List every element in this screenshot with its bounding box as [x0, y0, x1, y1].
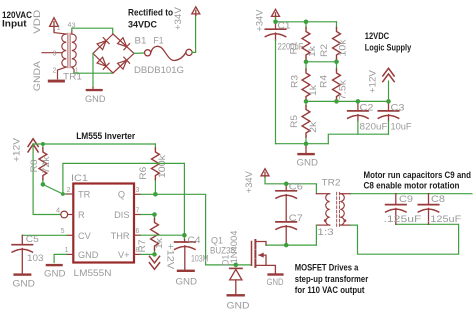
capacitor C2 [357, 101, 359, 110]
fuse F1 [145, 46, 193, 60]
junction dots top-right [273, 20, 391, 147]
svg-text:B1: B1 [135, 35, 147, 46]
svg-text:C2: C2 [360, 102, 374, 113]
svg-text:C9: C9 [399, 194, 413, 205]
wire TR1 pin4 to bridge top [72, 28, 113, 33]
svg-text:DIS: DIS [114, 210, 129, 220]
svg-text:+12V: +12V [12, 137, 23, 162]
capacitor C3 [388, 101, 390, 110]
op-amp IC1 LM555N body [73, 184, 134, 263]
svg-text:R8: R8 [29, 160, 40, 173]
svg-text:R6: R6 [138, 167, 149, 180]
wire +12V to rail [388, 81, 390, 101]
svg-text:TR: TR [78, 190, 91, 200]
pin 4 inversion bubble [61, 211, 68, 218]
svg-text:103M: 103M [191, 253, 209, 264]
svg-text:3: 3 [53, 50, 57, 57]
wire row2 [306, 61, 337, 63]
wire drain rail [266, 244, 316, 246]
resistor R5 [305, 101, 307, 143]
svg-text:MOSFET Drives a: MOSFET Drives a [295, 263, 359, 274]
svg-text:LM555N: LM555N [74, 268, 112, 279]
supply +34V mid [272, 9, 280, 16]
svg-text:C8 enable motor rotation: C8 enable motor rotation [364, 180, 460, 191]
svg-text:820uF: 820uF [360, 121, 388, 132]
svg-text:C3: C3 [391, 102, 405, 113]
svg-text:12VDC: 12VDC [365, 31, 389, 42]
svg-text:THR: THR [111, 231, 130, 241]
svg-text:R1: R1 [288, 42, 299, 55]
svg-text:2: 2 [53, 67, 57, 74]
svg-text:1: 1 [57, 25, 61, 32]
svg-text:1k: 1k [154, 238, 165, 249]
svg-text:R3: R3 [289, 75, 300, 88]
svg-text:100k: 100k [157, 155, 168, 178]
svg-text:GND: GND [85, 94, 106, 105]
capacitor C9 [395, 194, 397, 205]
svg-text:5: 5 [61, 228, 65, 235]
capacitor C7 [276, 222, 296, 229]
svg-text:R4: R4 [318, 75, 329, 88]
svg-text:+12V: +12V [165, 243, 176, 270]
ground GNDA [48, 80, 65, 83]
capacitor C5 [21, 235, 23, 244]
svg-text:.125uF: .125uF [427, 214, 461, 225]
ground GND at diode [227, 294, 245, 296]
wire row3 12V rail [306, 100, 389, 102]
svg-text:1k: 1k [308, 85, 319, 96]
svg-text:DBDB101G: DBDB101G [134, 65, 184, 76]
wire TR1 pin1 to bridge bottom [74, 72, 113, 73]
svg-text:+34V: +34V [255, 9, 266, 32]
ground GND under C5 [13, 273, 31, 275]
svg-text:C6: C6 [289, 181, 303, 192]
svg-text:Rectified to: Rectified to [128, 8, 173, 19]
supply +34V left [192, 7, 200, 14]
ground GND under C4 [177, 270, 195, 272]
resistor R8 [42, 144, 44, 184]
SECTION: lm555 [12, 131, 252, 289]
svg-text:GND: GND [227, 301, 250, 312]
svg-text:R5: R5 [289, 115, 300, 128]
svg-text:2k: 2k [308, 122, 319, 133]
wire VDD to TR1 pin [54, 31, 66, 34]
svg-text:C1: C1 [278, 21, 291, 32]
svg-text:C7: C7 [289, 213, 303, 224]
svg-text:F1: F1 [154, 35, 164, 46]
supply +34V at TR2 [261, 169, 269, 176]
svg-text:1: 1 [65, 247, 69, 254]
svg-text:C8: C8 [431, 194, 445, 205]
svg-text:4: 4 [56, 207, 60, 214]
svg-text:72k: 72k [41, 156, 52, 173]
svg-text:1:3: 1:3 [317, 227, 334, 238]
resistor R2 [336, 22, 338, 62]
svg-text:C5: C5 [26, 234, 39, 245]
svg-text:Logic Supply: Logic Supply [365, 43, 412, 54]
svg-text:GND: GND [44, 269, 66, 280]
wire CV to C5 [22, 234, 67, 236]
svg-text:+12V: +12V [368, 69, 379, 93]
svg-text:C4: C4 [188, 235, 201, 246]
wire GND pin1 [54, 254, 67, 262]
svg-text:GND: GND [78, 250, 99, 260]
wire TR2 primary bottom to drain rail [315, 225, 317, 245]
svg-text:step-up transformer: step-up transformer [295, 274, 369, 285]
resistor R1 [305, 22, 307, 62]
wire THR [140, 234, 184, 236]
capacitor C8 [428, 194, 430, 205]
svg-text:34VDC: 34VDC [128, 20, 157, 31]
svg-text:GND: GND [176, 277, 198, 288]
wire TR2 secondary top rail [351, 193, 472, 195]
wire C1 down to ground rail [275, 40, 277, 144]
svg-text:103: 103 [27, 253, 44, 264]
svg-text:TR2: TR2 [322, 177, 341, 188]
supply +12V top-right [383, 68, 394, 81]
svg-text:R7: R7 [137, 240, 148, 253]
supply +12V down at V+ [149, 256, 159, 269]
SECTION: top-right supply [255, 9, 412, 169]
svg-text:2: 2 [67, 187, 71, 194]
wire TR node to R8 diagonal and THR link [43, 163, 185, 235]
svg-text:GNDA: GNDA [32, 60, 43, 91]
svg-text:7: 7 [136, 207, 140, 214]
wire bridge right vertex to fuse [134, 52, 145, 54]
SECTION: mosfet-tr2 [210, 169, 472, 312]
ground GND at source [267, 273, 283, 275]
svg-text:1N4004: 1N4004 [229, 231, 240, 264]
svg-text:.125uF: .125uF [384, 214, 422, 225]
wire DIS [140, 214, 154, 216]
ground GND under R5 [305, 144, 307, 153]
svg-text:Input: Input [2, 19, 27, 30]
junction dots lm555 [41, 142, 187, 257]
ground GND under bridge [92, 87, 94, 89]
capacitor C6 [285, 184, 287, 191]
svg-text:Q: Q [118, 190, 125, 200]
svg-text:10k: 10k [338, 39, 349, 56]
SECTION: top-left power input [2, 7, 200, 105]
svg-text:IC1: IC1 [71, 173, 88, 184]
svg-text:R2: R2 [319, 44, 330, 57]
capacitor C1 [275, 22, 277, 29]
wire +12V rail to R6 [33, 143, 155, 145]
svg-text:LM555 Inverter: LM555 Inverter [76, 131, 135, 142]
svg-text:+34V: +34V [173, 7, 184, 31]
supply +12V lm555 [28, 139, 38, 152]
wire top rail [276, 21, 337, 23]
wire fuse to +34V [192, 15, 196, 52]
junction dots mosfet area [234, 182, 289, 268]
wire +34V to rail [275, 18, 277, 22]
wire to C4 [183, 235, 185, 239]
svg-text:3: 3 [136, 187, 140, 194]
svg-text:6: 6 [136, 228, 140, 235]
svg-text:GND: GND [267, 277, 284, 288]
bridge rectifier B1 [93, 34, 134, 73]
wire C2 C3 bottoms [358, 121, 389, 134]
svg-text:GND: GND [297, 158, 319, 169]
wire ground rail [276, 143, 329, 145]
capacitor C4 [184, 240, 186, 242]
resistor R4 [336, 62, 338, 102]
wire bridge left vertex to ground [92, 53, 94, 87]
svg-text:1k: 1k [307, 46, 318, 57]
pin stubs [67, 194, 141, 254]
svg-text:V+: V+ [118, 250, 130, 260]
transformer TR1 [42, 31, 76, 79]
wire +34V rail to TR2 primary top [265, 177, 316, 193]
svg-text:R: R [78, 210, 85, 220]
svg-text:+34V: +34V [244, 171, 255, 194]
wire +12V down to pin R [33, 144, 61, 215]
svg-text:7.5k: 7.5k [338, 80, 349, 100]
svg-text:10uF: 10uF [391, 121, 412, 132]
resistor R7 [154, 215, 156, 255]
ground GND at pin1 [46, 264, 63, 266]
resistor R3 [305, 62, 307, 102]
diode D1 1N4004 [230, 267, 242, 269]
svg-text:CV: CV [78, 231, 92, 241]
svg-text:GND: GND [13, 278, 36, 289]
wire V+ [140, 253, 154, 255]
transistor Q1 BUZ38 mosfet [252, 240, 276, 273]
svg-text:VDD: VDD [32, 10, 43, 34]
svg-text:for 110 VAC output: for 110 VAC output [295, 285, 365, 296]
wire Q output to gate [140, 194, 251, 265]
wire TR2 secondary bottom detour [351, 224, 459, 254]
resistor R6 [154, 144, 156, 194]
